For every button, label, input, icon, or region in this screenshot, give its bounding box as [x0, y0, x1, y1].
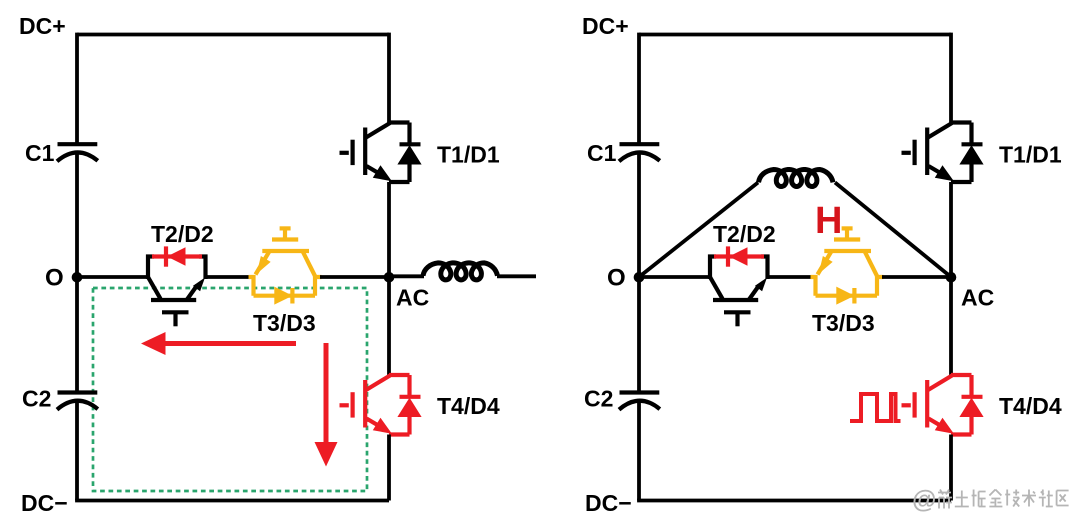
transistor T2 with diode D2	[148, 246, 206, 326]
wire left rail upper	[75, 33, 79, 144]
svg-text:T2/D2: T2/D2	[713, 221, 776, 247]
wire O rail middle	[204, 275, 251, 279]
wire right rail T1-AC	[949, 182, 953, 277]
capacitor C1	[57, 144, 98, 161]
wire right rail lower	[387, 435, 391, 501]
wire O rail left	[77, 275, 150, 279]
wire right rail upper	[387, 33, 391, 123]
transistor T4 with diode D4	[340, 375, 421, 435]
svg-text:H: H	[815, 200, 842, 242]
svg-text:T1/D1: T1/D1	[999, 142, 1062, 168]
capacitor C1	[619, 144, 660, 161]
inductor L output	[423, 263, 498, 280]
svg-text:C1: C1	[587, 140, 617, 166]
wire top bus	[639, 33, 951, 37]
wire AC output left	[389, 274, 424, 278]
transistor T4 with diode D4	[902, 375, 983, 435]
wire O rail right	[320, 275, 389, 279]
current arrow vertical	[315, 343, 338, 467]
svg-text:O: O	[607, 265, 626, 292]
wire right rail AC-T4	[949, 277, 953, 375]
svg-text:DC−: DC−	[21, 490, 68, 515]
wire O rail middle	[766, 275, 813, 279]
wire left rail middle	[637, 153, 641, 393]
svg-text:C1: C1	[25, 140, 55, 166]
watermark	[912, 486, 1069, 514]
capacitor C2	[619, 393, 660, 410]
node O	[72, 272, 83, 283]
svg-text:T3/D3: T3/D3	[253, 310, 316, 336]
svg-text:T4/D4: T4/D4	[999, 393, 1062, 419]
commutation loop (green dashed)	[93, 288, 367, 491]
svg-text:T2/D2: T2/D2	[151, 221, 214, 247]
wire left rail lower	[637, 401, 641, 501]
node AC	[946, 272, 957, 283]
capacitor C2	[57, 393, 98, 410]
wire O rail left	[639, 275, 712, 279]
svg-text:@: @	[912, 486, 936, 514]
svg-text:DC+: DC+	[582, 13, 629, 39]
transistor T1 with diode D1	[340, 123, 421, 183]
transistor T3 with diode D3	[249, 227, 322, 304]
wire AC output right	[497, 274, 536, 278]
wire left rail middle	[75, 153, 79, 393]
wire left rail lower	[75, 401, 79, 501]
wire O rail right	[882, 275, 951, 279]
wire left rail upper	[637, 33, 641, 144]
svg-text:T4/D4: T4/D4	[437, 393, 500, 419]
wire right rail AC-T4	[387, 277, 391, 375]
wire right rail T1-AC	[387, 182, 391, 277]
svg-text:DC−: DC−	[585, 490, 632, 515]
current arrow horizontal	[141, 332, 296, 355]
svg-text:C2: C2	[584, 386, 613, 412]
svg-text:AC: AC	[961, 285, 994, 311]
wire right rail upper	[949, 33, 953, 123]
svg-text:DC+: DC+	[19, 13, 66, 39]
svg-text:T1/D1: T1/D1	[437, 142, 500, 168]
inductor L freewheel	[759, 170, 834, 187]
svg-text:AC: AC	[396, 285, 429, 311]
wire bottom bus	[637, 499, 951, 503]
transistor T3 with diode D3	[811, 227, 884, 304]
svg-text:T3/D3: T3/D3	[812, 310, 875, 336]
node O	[634, 272, 645, 283]
wire bottom bus	[75, 499, 389, 503]
svg-text:C2: C2	[22, 386, 51, 412]
wire top bus	[77, 33, 389, 37]
transistor T2 with diode D2	[710, 246, 768, 326]
node AC	[384, 272, 395, 283]
wire right rail lower	[949, 435, 953, 501]
wire slant O to inductor	[639, 183, 758, 278]
gate drive PWM symbol	[850, 394, 901, 421]
wire slant inductor to AC	[835, 183, 951, 278]
transistor T1 with diode D1	[902, 123, 983, 183]
svg-text:O: O	[45, 265, 64, 292]
